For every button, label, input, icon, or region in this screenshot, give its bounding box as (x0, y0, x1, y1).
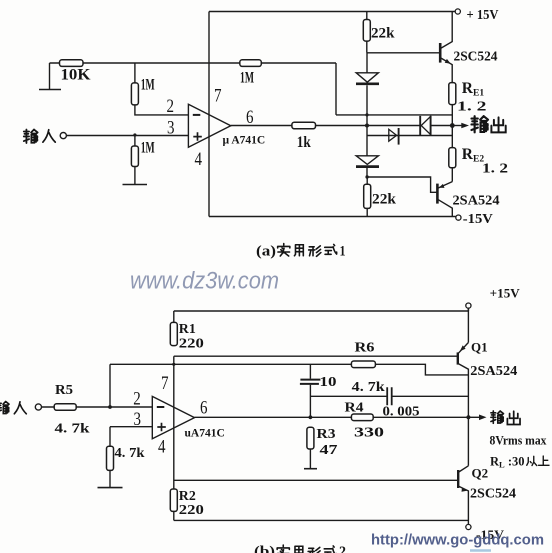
label 输入 (input) circuit b (0, 402, 9, 414)
transistor 2SA524 (PNP lower) (437, 182, 452, 217)
wire pin2 feedback vertical (109, 364, 111, 407)
wire +15V top rail (circuit a) (209, 11, 455, 13)
wire feedback line top (circuit a) (50, 62, 337, 64)
svg-text:RL :30: RL :30 (490, 455, 525, 470)
wire feedback bend down (336, 63, 452, 115)
wire inverting input pin 2 (circuit a) (135, 105, 189, 115)
junction lower 22k node (365, 175, 368, 178)
junction output/diode node (365, 124, 369, 128)
diode D2 (down-pointing, lower) (356, 156, 378, 165)
resistor R4 (351, 414, 373, 421)
svg-text:1. 2: 1. 2 (457, 100, 487, 115)
wire input to pin 3 (circuit a) (66, 135, 188, 137)
svg-text:1M: 1M (240, 70, 254, 87)
svg-text:0. 005: 0. 005 (383, 405, 420, 420)
resistor 1M lower vertical (134, 135, 136, 146)
ground under 10K (39, 63, 61, 90)
capacitor 10 (309, 364, 311, 417)
resistor R3 (307, 427, 314, 449)
output arrow circuit a (452, 125, 463, 127)
wire R6 feedback line (110, 364, 468, 375)
ground under 1M lower (123, 184, 148, 186)
diode D4 (right-pointing, lower branch) (389, 129, 397, 141)
-15V terminal circuit a (456, 215, 461, 220)
transistor Q2 2SC524 (NPN lower, circuit b) (458, 417, 468, 524)
svg-text:2SC524: 2SC524 (454, 50, 498, 65)
svg-text:2: 2 (339, 544, 346, 553)
svg-text:8Vrms max: 8Vrms max (490, 434, 548, 448)
svg-text:2SA524: 2SA524 (470, 364, 517, 379)
svg-text:6: 6 (246, 107, 254, 128)
input terminal circuit a (60, 133, 66, 139)
svg-text:1. 2: 1. 2 (482, 162, 508, 177)
svg-text:7: 7 (214, 86, 222, 107)
svg-text:R4: R4 (345, 401, 364, 416)
svg-text:7: 7 (161, 373, 169, 394)
wire compensation branch (310, 395, 387, 397)
wire op-amp supply vertical pins 7-4 (circuit a) (208, 12, 210, 217)
svg-text:R6: R6 (355, 341, 375, 356)
resistor RE1 (449, 83, 456, 105)
svg-text:330: 330 (354, 426, 384, 441)
svg-text:220: 220 (179, 337, 204, 352)
svg-text:R5: R5 (55, 383, 73, 398)
svg-text:4: 4 (158, 437, 166, 458)
svg-text:4. 7k: 4. 7k (55, 422, 90, 437)
svg-text:47: 47 (320, 443, 338, 458)
resistor 4.7k pin3 (107, 446, 114, 470)
svg-text:+ 15V: + 15V (467, 7, 499, 22)
svg-text:+15V: +15V (490, 286, 521, 301)
svg-text:1: 1 (340, 244, 346, 260)
wire +15V rail circuit b (174, 308, 469, 311)
transistor Q1 2SA524 (PNP upper, circuit b) (458, 308, 469, 417)
svg-text:Q1: Q1 (471, 340, 488, 355)
op-amp U1 minus sign (193, 114, 201, 116)
svg-text:www.dz3w.com: www.dz3w.com (130, 268, 279, 295)
svg-text:Q2: Q2 (472, 466, 489, 481)
wire pin 3 (110, 427, 152, 447)
svg-text:220: 220 (179, 503, 204, 518)
svg-text:3: 3 (167, 118, 175, 139)
resistor 1M upper vertical (134, 63, 136, 83)
output node circuit a (450, 123, 455, 128)
svg-text:R3: R3 (317, 427, 336, 442)
svg-text:RE2: RE2 (462, 146, 485, 165)
label 输出 (output) circuit a (471, 116, 488, 132)
wire 22k node to 2SC524 base (367, 52, 440, 54)
svg-text:RE1: RE1 (462, 80, 485, 99)
svg-text:1M: 1M (141, 140, 155, 157)
svg-text:10: 10 (320, 375, 337, 390)
svg-text:22k: 22k (371, 26, 395, 42)
svg-text:µ A741C: µ A741C (223, 135, 266, 147)
resistor 1M horizontal feedback (240, 60, 261, 67)
ground under R3 (304, 468, 317, 470)
+15V terminal circuit a (455, 9, 460, 14)
svg-text:6: 6 (200, 398, 208, 419)
svg-text:10K: 10K (61, 67, 92, 84)
resistor R1 (173, 311, 175, 322)
svg-text:(a): (a) (256, 244, 276, 260)
wire Q2 base line (174, 479, 458, 481)
label 输入 (input) circuit a (24, 130, 38, 144)
resistor 22k lower (366, 177, 368, 217)
svg-text:1k: 1k (297, 134, 311, 151)
svg-text:22k: 22k (372, 192, 397, 208)
resistor R6 (351, 361, 375, 368)
svg-text:3: 3 (134, 409, 142, 430)
+15V terminal circuit b (466, 303, 471, 308)
junction input/1M (133, 133, 136, 136)
wire -15V bottom rail (circuit a) (209, 216, 456, 218)
ground under 4.7k (98, 487, 123, 489)
op-amp U2 plus sign (157, 423, 166, 432)
input terminal circuit b (35, 404, 41, 410)
resistor 10K (60, 60, 84, 67)
svg-text:R1: R1 (179, 322, 196, 337)
-15V terminal circuit b (466, 524, 471, 529)
svg-text:2: 2 (167, 96, 175, 117)
output arrow circuit b (468, 416, 479, 418)
capacitor 0.005 (387, 387, 392, 405)
op-amp U2 triangle (152, 396, 194, 438)
junction R3 node (309, 415, 313, 419)
wire lower diode node to 2SA524 base (367, 177, 437, 192)
op-amp U2 minus sign (157, 406, 165, 408)
svg-text:2: 2 (133, 389, 141, 410)
junction main vertical / R6 line (172, 363, 175, 366)
svg-text:uA741C: uA741C (185, 428, 225, 440)
wire op-amp output (circuit a) (231, 125, 421, 127)
svg-text:R2: R2 (179, 489, 196, 504)
diode D1 (down-pointing, upper) (356, 73, 378, 82)
resistor R5 (42, 406, 153, 408)
diode D3 (left-pointing, in output line) (420, 116, 430, 135)
svg-text:(b): (b) (254, 544, 275, 553)
resistor 1k (292, 122, 316, 129)
op-amp U1 plus sign (193, 132, 202, 141)
svg-text:4. 7k: 4. 7k (352, 380, 385, 395)
resistor 22k upper (366, 12, 368, 53)
wire diode string vertical (366, 53, 368, 177)
svg-text:2SC524: 2SC524 (470, 487, 516, 502)
svg-text:1M: 1M (141, 77, 155, 94)
wire D3 cathode to output node (431, 125, 453, 127)
wire Q1 base line (174, 355, 458, 357)
resistor R2 (170, 489, 177, 511)
svg-text:2SA524: 2SA524 (453, 194, 500, 209)
wire lower bridge branch (367, 135, 452, 137)
op-amp U1 triangle (188, 104, 230, 147)
svg-text:4. 7k: 4. 7k (115, 446, 145, 461)
wire main vertical pins 7-4 circuit b (173, 356, 175, 489)
output node circuit b (466, 415, 470, 419)
junction feedback/diode node (365, 113, 368, 116)
wire op-amp output circuit b (195, 416, 469, 418)
wire -15V rail circuit b (174, 519, 469, 521)
junction pin2 node (108, 405, 112, 409)
svg-text:-15V: -15V (463, 211, 493, 226)
svg-text:http://www.go-gddq.com: http://www.go-gddq.com (371, 532, 544, 549)
resistor RE2 (451, 126, 453, 182)
svg-text:4: 4 (195, 149, 203, 170)
transistor 2SC524 (NPN upper) (440, 12, 452, 83)
label 输出 (output) circuit b (491, 411, 504, 423)
